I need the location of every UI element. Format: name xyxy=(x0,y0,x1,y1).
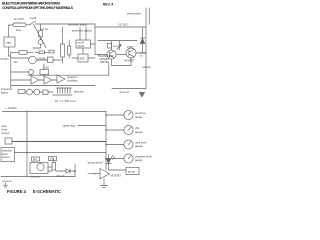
wire mid rail xyxy=(11,85,95,87)
wire mosfet ground xyxy=(103,179,105,186)
wire gate rail xyxy=(98,41,137,51)
pump P1 xyxy=(126,168,139,175)
resistor R10 xyxy=(52,163,56,171)
wire gauge4 xyxy=(106,158,124,160)
svg-text:MOSFET: MOSFET xyxy=(125,59,136,62)
wire osc rail xyxy=(28,64,109,76)
svg-text:C+DC: C+DC xyxy=(43,66,50,69)
svg-text:pump: pump xyxy=(128,170,135,174)
svg-text:fuse: fuse xyxy=(16,28,22,32)
svg-text:FIGURE 4: FIGURE 4 xyxy=(7,189,27,194)
svg-text:E-SCHEMATIC: E-SCHEMATIC xyxy=(33,189,61,194)
wire chamber sensor xyxy=(15,152,107,154)
resistor R8 10k xyxy=(32,157,40,161)
resistor R13 xyxy=(49,50,54,53)
12V mid rail xyxy=(3,111,107,113)
svg-text:electrodes: electrodes xyxy=(127,12,141,16)
svg-text:chamber level: chamber level xyxy=(135,155,152,159)
svg-text:pulsed: pulsed xyxy=(140,52,147,54)
arrow mark xyxy=(117,45,121,50)
svg-text:CONTROLLER FROM OFF-THE-SHELF: CONTROLLER FROM OFF-THE-SHELF MATERIALS xyxy=(2,6,74,10)
wire to pump xyxy=(109,169,127,171)
svg-text:humidity adjust: humidity adjust xyxy=(68,23,87,27)
svg-text:gauge: gauge xyxy=(135,159,143,162)
wire gauge1 xyxy=(106,114,124,116)
svg-text:43k: 43k xyxy=(13,60,18,64)
buffer A3 xyxy=(57,75,65,83)
resistor R7 xyxy=(43,90,48,95)
wire 555 xyxy=(72,48,95,58)
svg-text:decoder: decoder xyxy=(74,89,84,93)
svg-text:pressure adjust: pressure adjust xyxy=(72,29,92,33)
wire u4 xyxy=(11,57,63,63)
svg-text:+ 12VDC: + 12VDC xyxy=(5,106,17,110)
battery B1 xyxy=(4,37,15,47)
svg-text:power: power xyxy=(127,45,134,48)
svg-text:uW: uW xyxy=(135,126,139,130)
wire LED leads xyxy=(33,24,41,48)
ground symbol small xyxy=(4,183,8,187)
svg-text:level: level xyxy=(2,152,8,156)
fuse F1 xyxy=(13,23,26,27)
node dots xyxy=(26,111,107,172)
wire gauge2 xyxy=(106,129,124,131)
timer U3 555 xyxy=(78,54,88,62)
svg-text:gauge: gauge xyxy=(135,116,143,119)
wire u5 xyxy=(43,64,45,77)
transistor Q6 xyxy=(29,70,34,75)
gauge M4 chamber level xyxy=(124,154,133,163)
svg-text:m: m xyxy=(94,173,96,176)
svg-text:MOSFET: MOSFET xyxy=(111,174,122,177)
svg-text:pressure: pressure xyxy=(135,111,146,115)
right 12V bus wire xyxy=(145,27,147,88)
wire R4 xyxy=(11,51,33,53)
diode D2 xyxy=(140,37,144,39)
left bus wire xyxy=(9,47,11,88)
transistor Q3 xyxy=(27,89,33,95)
wire buffers xyxy=(11,79,57,81)
capacitor C1 xyxy=(48,57,54,63)
ground arrow xyxy=(140,93,145,98)
buffer A2 xyxy=(44,76,52,84)
wire r12 xyxy=(35,51,49,53)
svg-text:out: out xyxy=(140,54,144,57)
transistor Q2 power mosfet xyxy=(126,48,136,58)
svg-text:level: level xyxy=(2,128,8,132)
vertical bus left xyxy=(26,112,28,177)
IC U6 pins xyxy=(57,88,72,93)
svg-text:REV. A: REV. A xyxy=(103,2,114,6)
ground symbol xyxy=(101,186,108,188)
svg-text:sensor: sensor xyxy=(2,131,10,135)
svg-text:pressure: pressure xyxy=(67,75,78,79)
svg-text:12 VDC: 12 VDC xyxy=(14,17,25,21)
vertical bus right xyxy=(105,112,107,171)
box U5 xyxy=(40,70,49,75)
wire battery to fuse xyxy=(9,25,14,37)
resistor R4 xyxy=(19,51,27,55)
svg-text:DRIVER: DRIVER xyxy=(100,61,109,64)
svg-text:sensor: sensor xyxy=(2,155,10,159)
pot R2 humidity xyxy=(61,44,65,57)
wire mosfet to bus xyxy=(112,53,147,66)
wire diode xyxy=(142,28,144,53)
svg-text:oscillator: oscillator xyxy=(67,79,78,83)
resistor R1 xyxy=(39,31,43,38)
switch on/off xyxy=(30,21,36,25)
detector U7 xyxy=(30,163,48,174)
svg-text:R1, T1, 555 timer: R1, T1, 555 timer xyxy=(55,99,76,103)
transistor Q4 pump mosfet xyxy=(100,169,110,180)
svg-text:gauge: gauge xyxy=(135,131,143,134)
wire y95 xyxy=(53,94,72,96)
diode D3 xyxy=(66,169,70,173)
svg-text:BUILD YOUR OWN WATER VAPOR SYS: BUILD YOUR OWN WATER VAPOR SYSTEM xyxy=(2,2,60,6)
wire detector net xyxy=(48,159,75,172)
wire r5-r7 xyxy=(25,91,53,93)
wire mosfet in xyxy=(88,173,100,175)
ground rail bottom xyxy=(1,176,75,178)
electrodes terminal J1 xyxy=(146,8,149,27)
wire drop to pot xyxy=(62,27,64,44)
svg-text:ground: ground xyxy=(3,179,12,183)
svg-text:RhWht: RhWht xyxy=(1,57,9,61)
ground rail right xyxy=(112,88,146,90)
wire q6 xyxy=(11,71,29,73)
svg-text:555: 555 xyxy=(80,56,85,60)
tank sensor box xyxy=(5,138,12,144)
wire R3 xyxy=(68,40,70,58)
wire LED xyxy=(108,155,110,171)
wire gauge3 xyxy=(106,144,124,146)
wire driver to mosfet xyxy=(116,54,126,56)
svg-text:gauge: gauge xyxy=(135,145,143,148)
svg-text:tank: tank xyxy=(2,124,8,128)
svg-text:"pump active": "pump active" xyxy=(87,161,103,165)
svg-text:12 VDC: 12 VDC xyxy=(118,23,129,27)
12V top rail xyxy=(36,24,147,27)
LED D4 xyxy=(106,159,110,163)
wire long diagonal xyxy=(34,25,47,48)
buffer A1 xyxy=(31,76,39,84)
chamber level sensor box xyxy=(1,148,15,162)
gauge M2 uW xyxy=(124,125,133,134)
svg-text:ground: ground xyxy=(120,90,129,94)
svg-text:spark plug: spark plug xyxy=(63,123,76,127)
resistor R12 xyxy=(39,51,45,54)
LED D1 xyxy=(38,40,43,45)
resistor R5 xyxy=(18,90,25,94)
op-amp U4 xyxy=(29,56,37,64)
transistor Q5 xyxy=(34,89,40,95)
resistor R11 xyxy=(108,44,112,49)
svg-text:batt: batt xyxy=(6,40,11,44)
wire junction drop xyxy=(74,164,76,177)
svg-text:tank level: tank level xyxy=(135,141,147,145)
wire driver input xyxy=(95,27,107,55)
wire box drops xyxy=(80,27,95,44)
gauge M1 pressure xyxy=(124,110,133,119)
transistor Q1 mosfet driver xyxy=(107,50,116,59)
svg-text:zener: zener xyxy=(113,45,119,48)
gauge M3 tank level xyxy=(124,140,133,149)
wire spark plug xyxy=(78,125,106,127)
svg-text:adjust: adjust xyxy=(1,90,8,94)
svg-text:chamber: chamber xyxy=(2,148,12,152)
box U2 on/off signal xyxy=(76,40,91,48)
wire tank sensor xyxy=(12,141,106,143)
wire fuse to switch xyxy=(26,24,30,26)
resistor R3 xyxy=(68,46,71,55)
svg-text:signal: signal xyxy=(78,45,85,48)
svg-text:switch: switch xyxy=(143,65,152,69)
svg-text:on/off: on/off xyxy=(30,16,37,20)
svg-text:frequency: frequency xyxy=(1,87,13,91)
resistor R9 10k xyxy=(49,157,57,161)
